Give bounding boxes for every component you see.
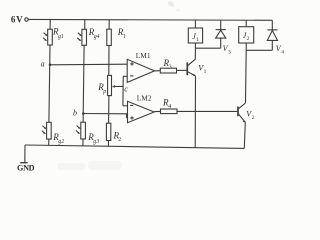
op-amp LM1 minus input sign [130,75,133,77]
resistor R2 body [106,123,110,140]
svg-text:g3: g3 [93,139,99,145]
diode V4 wire bottom [271,40,273,50]
wire R2 bottom to rail [107,141,109,147]
svg-text:4: 4 [281,49,284,55]
wire Rg3 bottom to rail [82,139,84,146]
photoresistor Rg2 arrows [42,126,47,135]
relay J2 stub bottom [245,43,247,50]
wire C3 top stub [108,20,110,30]
svg-text:2: 2 [118,137,121,143]
svg-text:3: 3 [228,49,231,55]
wire C2 top stub [84,20,86,30]
photoresistor Rg1 arrows [43,33,48,42]
wire C1 top stub [49,20,51,30]
wire LM1 output to R3 [155,70,161,72]
wire Rp bottom to R2 top [108,96,110,124]
transistor V1 base bar [186,62,188,75]
relay J1 stub top [194,20,196,28]
transistor V2 collector [238,103,245,109]
resistor R3 body [160,68,176,73]
6V terminal [25,18,28,21]
wire LM1 inverting stub [123,75,127,77]
wire J2 node to V2 collector [245,50,248,103]
svg-text:GND: GND [17,164,35,173]
photoresistor Rg4 arrows [77,33,82,42]
wire V2 emitter to ground rail [244,122,245,148]
resistor R1 body [107,29,112,45]
relay J2 stub top [245,20,247,27]
svg-text:LM2: LM2 [137,93,152,102]
faint scan smudge [57,161,122,170]
photoresistor Rg3 body [81,122,86,139]
wire V1 emitter to ground rail [194,76,196,148]
svg-text:1: 1 [204,69,207,75]
svg-text:LM1: LM1 [136,51,151,60]
op-amp LM2 minus input sign [130,104,133,106]
photoresistor Rg1 body [48,29,53,45]
diode V4 cathode bar [267,29,277,31]
ground drop wire [24,145,26,162]
svg-text:a: a [41,59,45,68]
wire LM2 output to R4 [154,110,160,112]
wire Rg2 bottom to rail [48,139,50,145]
wire R3 to V1 base [177,69,188,71]
svg-text:1: 1 [123,34,126,40]
transistor V2 base bar [237,107,239,117]
wire R1 bottom to Rp top [108,46,110,76]
node a dot [49,64,52,67]
photoresistor Rg3 arrows [76,126,81,135]
node b dot [82,112,85,115]
transistor V1 collector [188,48,196,65]
wire node a to LM1 + input [50,63,127,66]
wire C2 middle (Rg4 bottom to Rg3 top, node b) [83,45,84,122]
relay J2 box [239,27,254,43]
photoresistor Rg4 body [82,29,87,45]
svg-text:g4: g4 [94,33,100,40]
transistor V1 emitter [188,72,196,76]
diode V3 wire top [220,20,222,30]
svg-text:3: 3 [169,65,172,71]
wire node b to LM2 + input [83,114,127,118]
photoresistor Rg2 body [47,122,52,139]
svg-text:4: 4 [168,104,171,110]
svg-text:V: V [16,14,23,24]
node c vertical (inverting inputs bus) [122,76,124,106]
transistor V2 emitter [238,114,245,122]
wire J2 bottom node [246,49,272,51]
diode V3 cathode bar [216,29,226,31]
diode V3 wire bottom [220,38,222,48]
potentiometer Rp body [108,75,112,95]
wire C1 middle (Rg1 bottom to Rg2 top, node a) [49,45,50,122]
bottom ground rail [25,145,244,148]
wire LM2 inverting stub [123,105,128,107]
svg-text:2: 2 [247,36,250,42]
diode V4 wire top (rail corner) [271,20,273,30]
op-amp LM1 plus input sign [130,62,133,65]
top +6V rail [28,18,272,21]
svg-text:p: p [102,89,106,95]
relay J1 stub bottom [194,43,196,48]
resistor R4 body [161,109,178,114]
svg-text:2: 2 [252,115,255,121]
svg-text:g1: g1 [58,34,64,40]
svg-text:1: 1 [196,37,199,43]
potentiometer Rp wiper arrow [114,85,124,87]
svg-text:g2: g2 [58,139,64,145]
relay J1 box [188,28,202,43]
svg-text:c: c [124,84,128,93]
svg-text:b: b [73,108,77,117]
ground bar [20,162,27,164]
op-amp LM2 plus input sign [130,116,133,119]
op-amp LM2 triangle [128,101,155,122]
op-amp LM1 triangle [127,59,154,82]
diode V4 triangle [267,31,277,41]
wire J1 bottom node [195,47,220,49]
wire R4 to V2 base [177,110,237,112]
diode V3 triangle [216,30,226,38]
